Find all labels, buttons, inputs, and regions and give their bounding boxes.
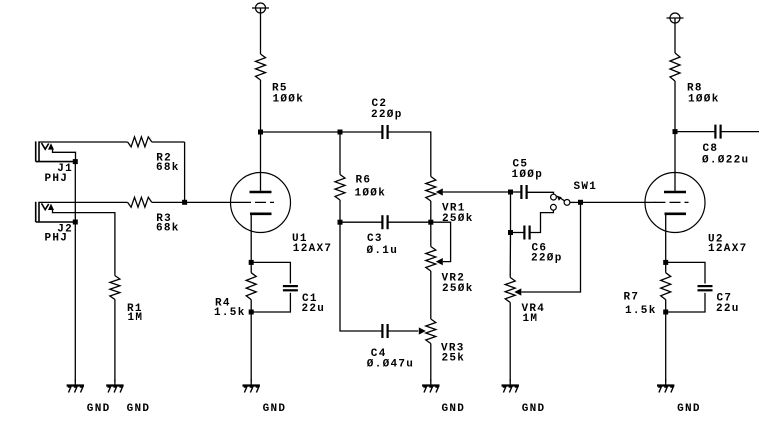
resistor R5 [256,54,305,105]
ground GND (U1 cathode) [243,380,287,415]
svg-text:22u: 22u [302,303,326,315]
svg-text:68k: 68k [156,222,180,234]
svg-text:25Øk: 25Øk [442,283,474,295]
wire J1 tip to R2 [39,141,128,143]
svg-text:SW1: SW1 [574,181,598,193]
junction C5 node [508,190,513,195]
wire VR2 to VR3 [430,271,432,319]
junction R7 bottom node [663,310,668,315]
tube U1 12AX7 [231,132,333,262]
wire C6 to switch throw [530,210,554,232]
wire C2 to VR1 [388,132,431,177]
wire cathode node to ground [250,300,252,382]
wire VR2 wiper loop [431,222,451,261]
wire R2 to node A [152,141,185,143]
svg-text:Ø.Ø22u: Ø.Ø22u [702,155,749,167]
ground GND (jacks) [67,380,111,415]
ground GND (R1) [106,380,150,415]
capacitor C2 [371,98,403,139]
svg-text:1ØØk: 1ØØk [273,93,305,105]
switch SW1 [551,181,598,210]
wire to C5 [511,191,522,193]
junction J2 sleeve node [73,220,78,225]
junction U1 plate node [258,130,263,135]
jack J1 [36,141,76,185]
svg-text:R6: R6 [356,175,372,187]
svg-text:12AX7: 12AX7 [293,243,333,255]
resistor R1 [110,276,143,324]
ground bus J1/J2 [74,162,76,382]
wire SW1 node to U2 grid [581,201,656,203]
wire C5 node down to C6 node [510,192,512,233]
svg-text:C8: C8 [703,143,719,155]
svg-text:C3: C3 [367,233,383,245]
junction U1 cathode node [249,260,254,265]
svg-text:25k: 25k [442,353,466,365]
wire node A to U1 grid [185,201,240,203]
svg-text:PHJ: PHJ [45,173,69,185]
wire SW1 node to VR4 wiper [521,202,580,292]
power node VCC2 [670,13,680,23]
power node VCC1 [256,3,266,13]
wire R8 to plate node [674,81,676,132]
svg-text:1ØØp: 1ØØp [512,169,544,181]
wire cathode to ground [665,300,667,382]
junction R6/C3 node [338,220,343,225]
capacitor C4 [367,324,414,370]
wire VR4 to ground [509,302,511,381]
svg-text:1M: 1M [523,313,539,325]
wire plate rail [261,131,341,133]
potentiometer VR3 [419,319,465,365]
resistor R8 [670,53,720,105]
wire C8 output [721,131,759,133]
capacitor C3 [367,215,399,257]
wire to C3 [340,221,382,223]
svg-text:GND: GND [677,403,701,415]
svg-text:1M: 1M [128,312,144,324]
resistor R6 [335,132,386,222]
capacitor C6 [524,226,562,265]
svg-text:GND: GND [522,403,546,415]
wire VR1 wiper to C5 node [443,191,511,193]
wire to C6 [511,232,525,234]
junction J1 sleeve node [73,159,78,164]
svg-text:GND: GND [442,403,466,415]
resistor R3 [128,197,180,234]
wire VR3 to ground [430,344,432,382]
svg-text:22u: 22u [716,303,740,315]
wire R1 to ground [114,299,116,381]
wire C4 to VR3 wiper [388,330,419,332]
resistor R7 [624,262,671,317]
junction U2 cathode node [663,260,668,265]
junction node A (grid node) [182,200,187,205]
capacitor C8 [702,125,749,167]
wire VR1 bottom [430,201,432,222]
svg-text:12AX7: 12AX7 [708,243,748,255]
junction C6 node [508,230,513,235]
potentiometer VR2 [426,222,474,295]
svg-text:1.5k: 1.5k [625,305,657,317]
svg-text:22Øp: 22Øp [371,109,403,121]
svg-text:1ØØk: 1ØØk [688,93,720,105]
svg-text:GND: GND [263,403,287,415]
potentiometer VR4 [505,233,545,326]
svg-text:25Øk: 25Øk [442,213,474,225]
wire power to R5 [260,8,262,54]
svg-text:1ØØk: 1ØØk [355,187,387,199]
jack J2 [36,202,115,276]
ground GND (VR3) [422,380,465,415]
junction U2 plate node [673,129,678,134]
ground GND (U2 cathode) [657,380,701,415]
svg-text:GND: GND [127,403,151,415]
svg-text:Ø.Ø47u: Ø.Ø47u [367,358,414,370]
wire C5 to switch throw [527,192,554,194]
wire bus to C4 [340,222,382,331]
tube U2 12AX7 [645,132,748,263]
wire C3 to VR1/VR2 node [388,221,431,223]
junction R4 bottom node [249,310,254,315]
wire R3 to node A [152,201,185,203]
svg-text:68k: 68k [156,162,180,174]
svg-text:PHJ: PHJ [45,233,69,245]
potentiometer VR1 [426,177,474,226]
wire R5 to plate node [260,80,262,132]
resistor R4 [214,262,256,319]
wire rail to C2 [340,131,382,133]
junction VR1/VR2 node [428,220,433,225]
svg-text:GND: GND [87,403,111,415]
svg-text:1.5k: 1.5k [214,307,246,319]
capacitor C1 [251,262,325,315]
capacitor C5 [512,159,544,200]
svg-text:Ø.1u: Ø.1u [367,245,399,257]
wire plate node to C8 [675,131,715,133]
wire J2 tip to R3 [39,201,128,203]
ground GND (VR4) [502,380,546,415]
capacitor C7 [666,262,740,315]
wire down to node A [184,142,186,202]
svg-text:R7: R7 [624,291,640,303]
junction rail/R6 node [338,130,343,135]
wire switch pole to node [570,201,581,203]
svg-text:22Øp: 22Øp [531,253,563,265]
resistor R2 [128,137,180,174]
wire power to R8 [674,18,676,53]
junction SW1 node [578,200,583,205]
